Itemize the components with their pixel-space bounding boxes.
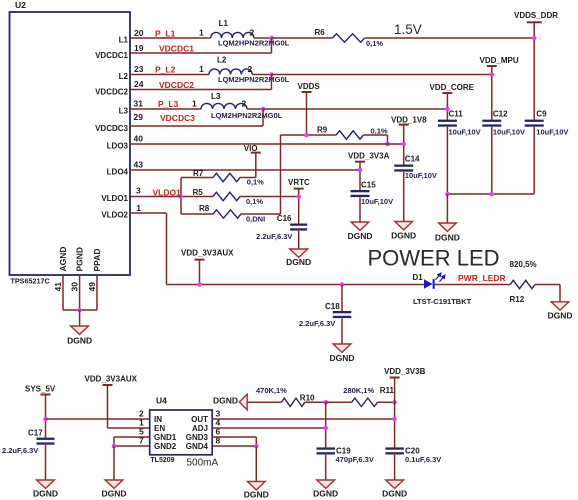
power symbol VDD_1V8: [399, 124, 409, 126]
svg-text:280K,1%: 280K,1%: [343, 386, 374, 395]
svg-text:VLDO2: VLDO2: [101, 211, 128, 220]
wire R12 to ground corner: [535, 284, 560, 286]
junction VDD_3V3AUX / LED rail: [197, 282, 202, 287]
wire R8 left: [181, 213, 213, 215]
junction VRTC / R5: [296, 194, 301, 199]
wire VDDS vertical to R8: [280, 135, 282, 214]
wire C12 to ground rail: [491, 127, 493, 194]
svg-text:P_L2: P_L2: [155, 65, 176, 75]
svg-text:2.2uF,6.3V: 2.2uF,6.3V: [2, 446, 38, 455]
svg-text:R7: R7: [193, 169, 204, 178]
IC U2 TPS65217C body: [10, 12, 131, 275]
svg-text:VDD_3V3AUX: VDD_3V3AUX: [85, 375, 138, 384]
wire GND bus to ground: [113, 446, 115, 480]
junction C18 / LED rail: [340, 282, 345, 287]
resistor R11: [352, 398, 378, 406]
svg-text:LQM2HPN2R2MG0L: LQM2HPN2R2MG0L: [211, 111, 283, 120]
svg-text:VDD_MPU: VDD_MPU: [480, 56, 519, 65]
svg-text:40: 40: [134, 134, 144, 144]
svg-text:DGND: DGND: [67, 336, 92, 346]
wire C9 to ground rail: [533, 127, 535, 194]
wire C17 to ground: [45, 445, 47, 480]
wire VDCDC2 feedback vertical: [271, 75, 273, 90]
svg-text:43: 43: [134, 160, 144, 170]
svg-text:PPAD: PPAD: [92, 249, 102, 272]
wire GND3 row: [212, 436, 256, 438]
wire rail to DGND: [446, 194, 448, 223]
svg-text:DGND: DGND: [213, 395, 238, 405]
svg-text:C12: C12: [493, 110, 508, 119]
svg-text:DGND: DGND: [244, 490, 269, 500]
svg-text:POWER LED: POWER LED: [368, 246, 500, 271]
svg-text:EN: EN: [154, 424, 165, 433]
svg-text:10uF,10V: 10uF,10V: [536, 128, 568, 137]
svg-text:P_L1: P_L1: [155, 28, 176, 38]
svg-text:31: 31: [134, 99, 144, 109]
wire GND3 corner down: [255, 437, 257, 446]
power symbol VDDS_DDR: [527, 21, 542, 23]
svg-text:10uF,10V: 10uF,10V: [449, 128, 481, 137]
svg-text:GND4: GND4: [186, 442, 209, 451]
wire junction to R6: [272, 37, 333, 39]
U2 pin 20 wire (P_L1): [130, 37, 211, 39]
svg-text:1: 1: [199, 64, 204, 74]
svg-text:820,5%: 820,5%: [510, 260, 537, 269]
power symbol VDD_MPU: [487, 65, 497, 67]
svg-text:C17: C17: [28, 428, 43, 437]
wire C14 to ground: [403, 172, 405, 222]
svg-text:500mA: 500mA: [187, 458, 219, 469]
svg-text:L3: L3: [119, 107, 129, 116]
wire VDDS_DDR stem down to C9: [533, 22, 535, 120]
wire OUT row to VDD_3V3B: [212, 418, 394, 420]
wire LED cathode to R12: [435, 284, 511, 286]
svg-text:1.5V: 1.5V: [394, 22, 422, 37]
inductor L2: [209, 69, 252, 75]
svg-text:29: 29: [134, 112, 144, 122]
resistor R10: [281, 398, 304, 406]
svg-text:PWR_LEDR: PWR_LEDR: [458, 273, 506, 283]
junction R11 / VDD_3V3B: [392, 400, 397, 405]
svg-text:VRTC: VRTC: [288, 178, 310, 187]
power symbol VDD_3V3AUX: [195, 259, 205, 261]
wire DGND arrow to R10: [247, 401, 281, 403]
svg-text:7: 7: [139, 436, 144, 446]
svg-text:C9: C9: [536, 110, 547, 119]
junction R9 / LDO3 line: [385, 142, 390, 147]
svg-text:0,DNI: 0,DNI: [246, 215, 265, 224]
svg-text:DGND: DGND: [329, 353, 354, 363]
wire R7 left: [181, 177, 213, 179]
svg-text:2: 2: [250, 28, 255, 38]
capacitor C19: [316, 447, 335, 449]
junction ground bus: [77, 308, 82, 313]
power symbol VDD_3V3AUX (U4 enable): [103, 384, 113, 386]
U2 pin 40 wire (LDO3 / VDD_1V8): [130, 143, 404, 145]
junction C12 ground: [490, 192, 495, 197]
junction SYS_5V / IN: [43, 417, 48, 422]
svg-text:LDO4: LDO4: [107, 168, 129, 177]
wire C11 to ground rail: [446, 127, 448, 194]
wire PPAD pin down: [96, 275, 98, 310]
svg-text:41: 41: [53, 282, 63, 292]
svg-text:VDD_3V3AUX: VDD_3V3AUX: [181, 248, 234, 257]
wire C18 to ground: [341, 318, 343, 344]
svg-text:ADJ: ADJ: [192, 424, 208, 433]
LED D1 symbol: [424, 279, 433, 289]
wire L2 junction to VDD_MPU: [272, 74, 492, 76]
wire L3 junction to VDD_CORE: [263, 108, 447, 110]
junction VLDO1 bus: [179, 194, 184, 199]
svg-text:D1: D1: [413, 273, 424, 282]
svg-text:R8: R8: [199, 204, 210, 213]
power symbol SYS_5V: [41, 394, 51, 396]
svg-text:VDCDC3: VDCDC3: [95, 124, 128, 133]
svg-text:IN: IN: [154, 415, 162, 424]
junction GND bus: [112, 444, 117, 449]
wire feedback vertical to C19: [325, 402, 327, 447]
wire R5 right to VRTC: [240, 196, 299, 198]
svg-text:DGND: DGND: [382, 488, 407, 498]
wire VDD_3V3B stem down to C20: [394, 378, 396, 448]
resistor R5: [213, 192, 240, 200]
svg-text:VLDO1: VLDO1: [153, 187, 182, 197]
svg-text:SYS_5V: SYS_5V: [25, 384, 56, 393]
svg-text:LDO3: LDO3: [107, 142, 129, 151]
wire GND4 bus to ground: [255, 446, 257, 482]
wire VDCDC1 feedback vertical: [271, 38, 273, 53]
wire R7 right to VIO: [240, 177, 256, 179]
capacitor C11: [438, 120, 457, 122]
wire VDD_1V8 stem: [403, 125, 405, 165]
U2 pin 23 wire (P_L2): [130, 74, 209, 76]
wire ground bus bar: [63, 309, 97, 311]
wire IN row to U4: [46, 418, 150, 420]
wire junction to R11: [326, 401, 352, 403]
svg-text:GND2: GND2: [154, 442, 177, 451]
wire VDD_3V3AUX stem to EN: [107, 385, 109, 428]
svg-text:R12: R12: [510, 295, 525, 304]
svg-text:20: 20: [134, 28, 144, 38]
capacitor C17: [37, 438, 55, 440]
svg-text:10uF,10V: 10uF,10V: [405, 171, 437, 180]
resistor R9: [336, 131, 363, 139]
junction VDD_CORE rail: [445, 107, 450, 112]
U2 pin 29 wire (VDCDC3): [130, 125, 263, 127]
wire L3 out to junction: [247, 108, 263, 110]
wire VLDO2 vertical down: [166, 213, 168, 285]
wire C16 to ground: [298, 231, 300, 249]
junction VDD_1V8 / pin40 line: [401, 142, 406, 147]
IC U4 TL5209 body: [150, 410, 213, 455]
capacitor C15: [351, 190, 370, 192]
svg-text:OUT: OUT: [191, 415, 208, 424]
svg-text:DGND: DGND: [347, 231, 372, 241]
junction VDDS / R9: [304, 133, 309, 138]
wire ground bus to DGND: [79, 310, 81, 326]
svg-text:10uF,10V: 10uF,10V: [361, 197, 393, 206]
svg-text:DGND: DGND: [547, 310, 572, 320]
svg-text:P_L3: P_L3: [158, 99, 179, 109]
svg-text:L1: L1: [119, 36, 129, 45]
svg-text:LQM2HPN2R2MG0L: LQM2HPN2R2MG0L: [218, 75, 290, 84]
svg-text:0,1%: 0,1%: [371, 127, 388, 136]
svg-text:DGND: DGND: [313, 488, 338, 498]
wire VDD_MPU stem down to C12: [491, 66, 493, 120]
svg-text:470K,1%: 470K,1%: [256, 386, 287, 395]
power symbol VDD_3V3A: [355, 161, 365, 163]
svg-text:VDCDC1: VDCDC1: [95, 51, 128, 60]
svg-text:PGND: PGND: [75, 247, 85, 272]
svg-text:1: 1: [136, 203, 141, 213]
U2 pin 3 wire (VLDO1): [130, 196, 181, 198]
junction ADJ / feedback: [323, 426, 328, 431]
resistor R12: [510, 280, 535, 288]
svg-text:C11: C11: [449, 110, 464, 119]
LED D1 light arrows: [436, 273, 445, 282]
power symbol VIO: [251, 152, 261, 154]
wire C20 to ground: [394, 455, 396, 480]
U2 pin 43 wire (LDO4 / VDD_3V3A): [130, 169, 360, 171]
wire GND1 row: [114, 436, 150, 438]
junction L3 output / VDCDC3 feedback: [261, 107, 266, 112]
svg-text:R6: R6: [315, 28, 326, 37]
capacitor C16: [290, 224, 307, 226]
svg-text:L2: L2: [217, 56, 227, 65]
svg-text:C15: C15: [361, 180, 376, 189]
svg-text:U4: U4: [156, 396, 167, 406]
svg-text:GND1: GND1: [154, 433, 177, 442]
svg-text:2.2uF,6.3V: 2.2uF,6.3V: [256, 232, 292, 241]
junction VDD_3V3A / pin43 line: [358, 168, 363, 173]
wire GND1-GND2 bus: [113, 437, 115, 446]
U2 pin 1 wire (VLDO2): [130, 212, 167, 214]
wire SYS_5V stem down: [45, 395, 47, 438]
svg-text:TL5209: TL5209: [150, 457, 174, 464]
power symbol VDD_CORE: [442, 92, 452, 94]
wire VDCDC3 feedback vertical: [262, 109, 264, 126]
junction L2 output / VDCDC2 feedback: [269, 72, 274, 77]
wire VLDO1 resistor bus vertical: [180, 178, 182, 215]
svg-text:VLDO1: VLDO1: [101, 194, 128, 203]
junction L1 output / VDCDC1 feedback: [269, 36, 274, 41]
svg-text:24: 24: [134, 79, 144, 89]
wire capacitor ground rail: [447, 193, 534, 195]
svg-text:R9: R9: [317, 125, 328, 134]
junction C11 ground: [445, 192, 450, 197]
resistor R7: [213, 173, 240, 181]
wire VDD_CORE stem down to C11: [446, 93, 448, 120]
capacitor C9: [525, 120, 544, 122]
svg-text:30: 30: [70, 282, 80, 292]
svg-text:GND3: GND3: [186, 433, 209, 442]
svg-text:2.2uF,6.3V: 2.2uF,6.3V: [299, 319, 335, 328]
svg-text:C16: C16: [277, 214, 292, 223]
ground DGND (C20): [386, 480, 404, 488]
svg-text:C14: C14: [405, 154, 420, 163]
svg-text:0.1uF,6.3V: 0.1uF,6.3V: [405, 455, 441, 464]
svg-text:1: 1: [199, 28, 204, 38]
wire GND2 row: [114, 445, 150, 447]
junction GND3/GND4: [254, 444, 259, 449]
wire C19 to ground: [325, 455, 327, 480]
ground DGND (C19): [317, 480, 335, 488]
capacitor C12: [482, 120, 501, 122]
resistor R6: [332, 34, 364, 42]
U2 pin 19 wire (VDCDC1): [130, 52, 272, 54]
wire ADJ row to feedback: [212, 427, 326, 429]
ground DGND (C14): [395, 222, 413, 230]
svg-text:470pF,6.3V: 470pF,6.3V: [336, 455, 374, 464]
svg-text:VDDS: VDDS: [298, 82, 321, 91]
svg-text:DGND: DGND: [391, 231, 416, 241]
wire R9 right to VDD_1V8 line: [363, 134, 387, 136]
svg-text:3: 3: [136, 186, 141, 196]
svg-text:VDD_3V3A: VDD_3V3A: [348, 152, 390, 161]
svg-text:L3: L3: [211, 92, 221, 101]
U2 pin 24 wire (VDCDC2): [130, 89, 272, 91]
svg-text:49: 49: [87, 282, 97, 292]
ground DGND (C17): [37, 480, 55, 488]
wire VIO stem down to R7: [255, 153, 257, 178]
svg-text:23: 23: [134, 64, 144, 74]
svg-text:0,1%: 0,1%: [246, 197, 263, 206]
svg-text:U2: U2: [15, 0, 26, 10]
svg-text:10uF,10V: 10uF,10V: [493, 128, 525, 137]
svg-text:0,1%: 0,1%: [247, 178, 264, 187]
wire C18 stem: [341, 285, 343, 312]
capacitor C18: [333, 311, 352, 313]
wire VDD_3V3A stem: [359, 162, 361, 190]
capacitor C14: [394, 165, 413, 167]
power symbol VRTC: [294, 188, 304, 190]
svg-text:VDCDC3: VDCDC3: [160, 113, 195, 123]
svg-text:TPS65217C: TPS65217C: [11, 277, 50, 286]
wire R10 to junction: [305, 401, 326, 403]
svg-text:VDCDC2: VDCDC2: [159, 80, 194, 90]
wire C15 to ground: [359, 197, 361, 222]
junction VDDS_DDR / 1.5V rail: [532, 36, 537, 41]
svg-text:C18: C18: [325, 302, 340, 311]
svg-text:DGND: DGND: [286, 257, 311, 267]
ground DGND (U4 GND1/GND2): [105, 480, 123, 488]
junction VDD_3V3B / OUT row: [392, 417, 397, 422]
wire R8 right: [241, 213, 281, 215]
svg-text:VDD_CORE: VDD_CORE: [430, 83, 475, 92]
svg-text:0,1%: 0,1%: [366, 39, 383, 48]
ground DGND (C18): [333, 344, 351, 352]
svg-text:AGND: AGND: [58, 246, 68, 271]
svg-text:LTST-C191TBKT: LTST-C191TBKT: [413, 297, 472, 306]
svg-text:VIO: VIO: [244, 144, 258, 153]
svg-text:VDCDC1: VDCDC1: [159, 44, 194, 54]
svg-text:VDDS_DDR: VDDS_DDR: [514, 11, 558, 20]
wire PGND pin down: [79, 275, 81, 310]
svg-text:DGND: DGND: [33, 488, 58, 498]
ground DGND (C15): [351, 222, 369, 230]
svg-text:VDD_3V3B: VDD_3V3B: [384, 367, 426, 376]
svg-text:L1: L1: [219, 19, 229, 28]
svg-text:DGND: DGND: [101, 488, 126, 498]
svg-text:L2: L2: [119, 72, 129, 81]
junction VDD_MPU rail: [490, 72, 495, 77]
svg-text:2: 2: [242, 99, 247, 109]
svg-text:2: 2: [248, 64, 253, 74]
wire L2 out to junction: [252, 74, 271, 76]
wire VDD_3V3AUX stem: [199, 260, 201, 285]
svg-text:R11: R11: [380, 386, 395, 395]
svg-text:19: 19: [134, 43, 144, 53]
svg-text:DGND: DGND: [435, 232, 460, 242]
inductor L1: [211, 32, 254, 38]
svg-text:R5: R5: [193, 188, 204, 197]
wire GND4 row: [212, 445, 256, 447]
svg-text:LQM2HPN2R2MG0L: LQM2HPN2R2MG0L: [218, 39, 290, 48]
ground DGND (U2): [71, 326, 89, 334]
power symbol VDDS: [302, 91, 312, 93]
svg-text:1: 1: [192, 99, 197, 109]
power symbol VDD_3V3B: [390, 377, 400, 379]
wire VRTC stem: [298, 189, 300, 224]
wire R9 left segment: [281, 134, 337, 136]
wire R11 to VDD_3V3B: [378, 401, 395, 403]
wire AGND pin down: [62, 275, 64, 310]
svg-text:VDCDC2: VDCDC2: [95, 87, 128, 96]
junction R10/R11/ADJ feedback: [323, 400, 328, 405]
U2 pin 31 wire (P_L3): [130, 108, 201, 110]
inductor L3: [201, 103, 247, 109]
wire R5 left: [181, 196, 213, 198]
wire VDDS stem down to R9: [306, 92, 308, 135]
ground DGND (R12 / LED): [551, 302, 569, 310]
ground DGND (C16): [290, 249, 308, 257]
svg-text:R10: R10: [300, 394, 315, 403]
capacitor C20: [385, 447, 404, 449]
wire L1 out to junction: [254, 37, 272, 39]
ground DGND (U4 GND3/GND4): [247, 482, 265, 490]
ground DGND (C11/C12/C9): [439, 223, 457, 231]
wire R6 to VDDS_DDR rail (1.5V): [365, 37, 535, 39]
svg-text:VDD_1V8: VDD_1V8: [391, 115, 427, 124]
resistor R8: [213, 210, 241, 218]
wire VLDO2 rail to LED D1: [167, 284, 425, 286]
